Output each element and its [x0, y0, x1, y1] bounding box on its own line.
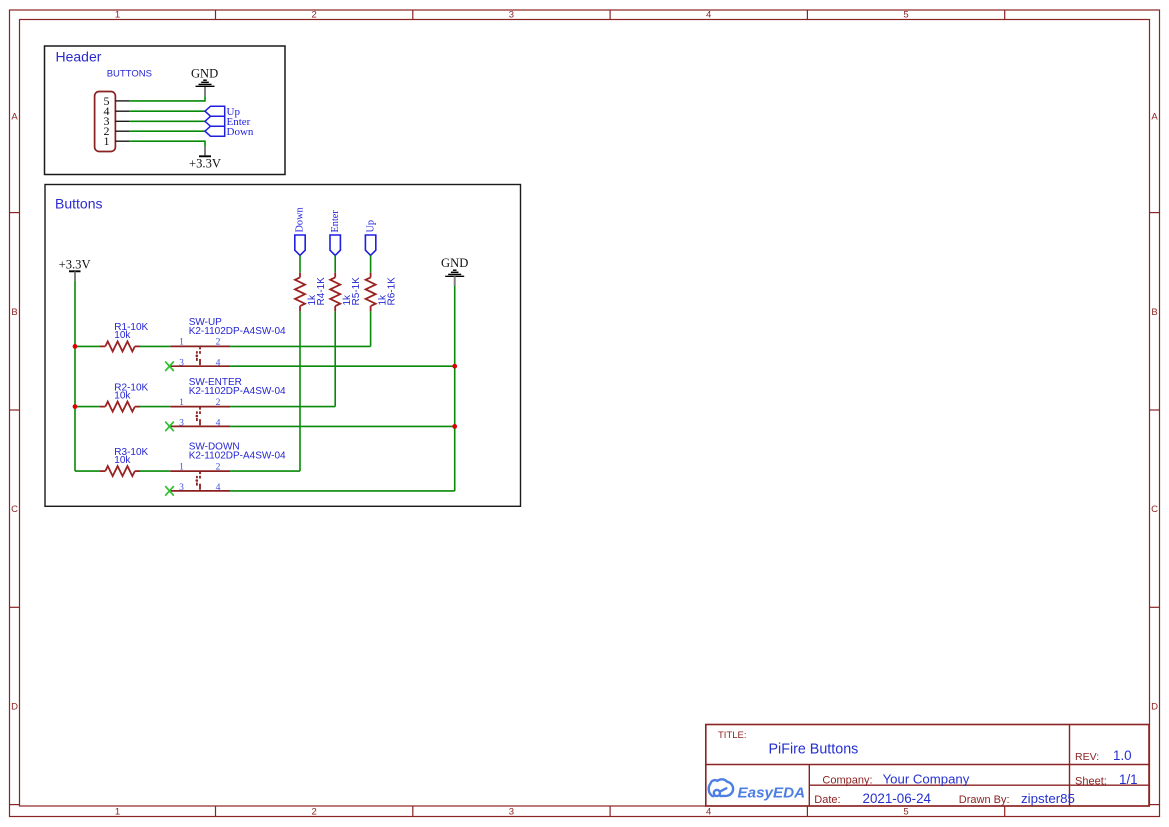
svg-text:Date:: Date:: [814, 794, 840, 806]
svg-text:EasyEDA: EasyEDA: [738, 785, 806, 802]
svg-text:2: 2: [311, 807, 316, 818]
svg-text:1: 1: [179, 461, 184, 472]
svg-text:4: 4: [706, 807, 711, 818]
svg-text:4: 4: [706, 10, 711, 21]
svg-text:GND: GND: [191, 66, 218, 80]
svg-text:3: 3: [509, 10, 514, 21]
svg-text:BUTTONS: BUTTONS: [107, 69, 152, 80]
svg-text:10k: 10k: [114, 455, 131, 466]
svg-text:REV:: REV:: [1075, 751, 1099, 763]
svg-text:PiFire Buttons: PiFire Buttons: [769, 742, 859, 758]
svg-text:Down: Down: [295, 207, 306, 232]
svg-text:+3.3V: +3.3V: [59, 257, 91, 271]
svg-text:1: 1: [104, 134, 110, 148]
svg-text:2: 2: [216, 337, 221, 348]
svg-text:C: C: [1151, 504, 1158, 515]
svg-text:2: 2: [216, 461, 221, 472]
svg-text:3: 3: [509, 807, 514, 818]
svg-text:Enter: Enter: [330, 210, 341, 233]
svg-text:K2-1102DP-A4SW-04: K2-1102DP-A4SW-04: [189, 326, 286, 337]
svg-text:4: 4: [216, 357, 221, 368]
svg-text:D: D: [1151, 701, 1158, 712]
svg-text:B: B: [1151, 307, 1157, 318]
svg-text:R6-1K: R6-1K: [386, 277, 397, 306]
svg-text:Down: Down: [227, 126, 254, 138]
svg-text:4: 4: [216, 418, 221, 429]
svg-text:Your Company: Your Company: [883, 771, 970, 786]
svg-text:R4-1K: R4-1K: [316, 277, 327, 306]
svg-text:Buttons: Buttons: [55, 195, 102, 211]
svg-text:1: 1: [179, 397, 184, 408]
svg-text:1: 1: [115, 807, 120, 818]
svg-text:zipster85: zipster85: [1021, 791, 1075, 806]
svg-text:D: D: [11, 701, 18, 712]
svg-text:B: B: [11, 307, 17, 318]
svg-text:3: 3: [179, 482, 184, 493]
svg-text:4: 4: [216, 482, 221, 493]
svg-text:C: C: [11, 504, 18, 515]
svg-text:TITLE:: TITLE:: [718, 730, 747, 741]
svg-text:A: A: [11, 112, 18, 123]
svg-text:2021-06-24: 2021-06-24: [863, 791, 932, 806]
svg-text:1.0: 1.0: [1113, 748, 1132, 763]
svg-text:3: 3: [179, 418, 184, 429]
svg-text:10k: 10k: [114, 390, 131, 401]
svg-text:Up: Up: [365, 220, 376, 233]
svg-text:Sheet:: Sheet:: [1075, 775, 1107, 787]
svg-text:3: 3: [179, 357, 184, 368]
svg-text:1/1: 1/1: [1119, 772, 1138, 787]
svg-text:Drawn By:: Drawn By:: [959, 794, 1010, 806]
svg-text:2: 2: [216, 397, 221, 408]
svg-text:2: 2: [311, 10, 316, 21]
svg-text:1: 1: [179, 337, 184, 348]
svg-text:+3.3V: +3.3V: [189, 157, 221, 171]
svg-text:GND: GND: [441, 256, 468, 270]
svg-text:Header: Header: [56, 49, 102, 65]
svg-text:R5-1K: R5-1K: [351, 277, 362, 306]
svg-text:Company:: Company:: [822, 774, 872, 786]
svg-text:5: 5: [903, 807, 908, 818]
svg-text:10k: 10k: [114, 330, 131, 341]
svg-text:K2-1102DP-A4SW-04: K2-1102DP-A4SW-04: [189, 386, 286, 397]
svg-text:5: 5: [903, 10, 908, 21]
svg-text:K2-1102DP-A4SW-04: K2-1102DP-A4SW-04: [189, 451, 286, 462]
svg-text:1: 1: [115, 10, 120, 21]
svg-text:A: A: [1151, 112, 1158, 123]
